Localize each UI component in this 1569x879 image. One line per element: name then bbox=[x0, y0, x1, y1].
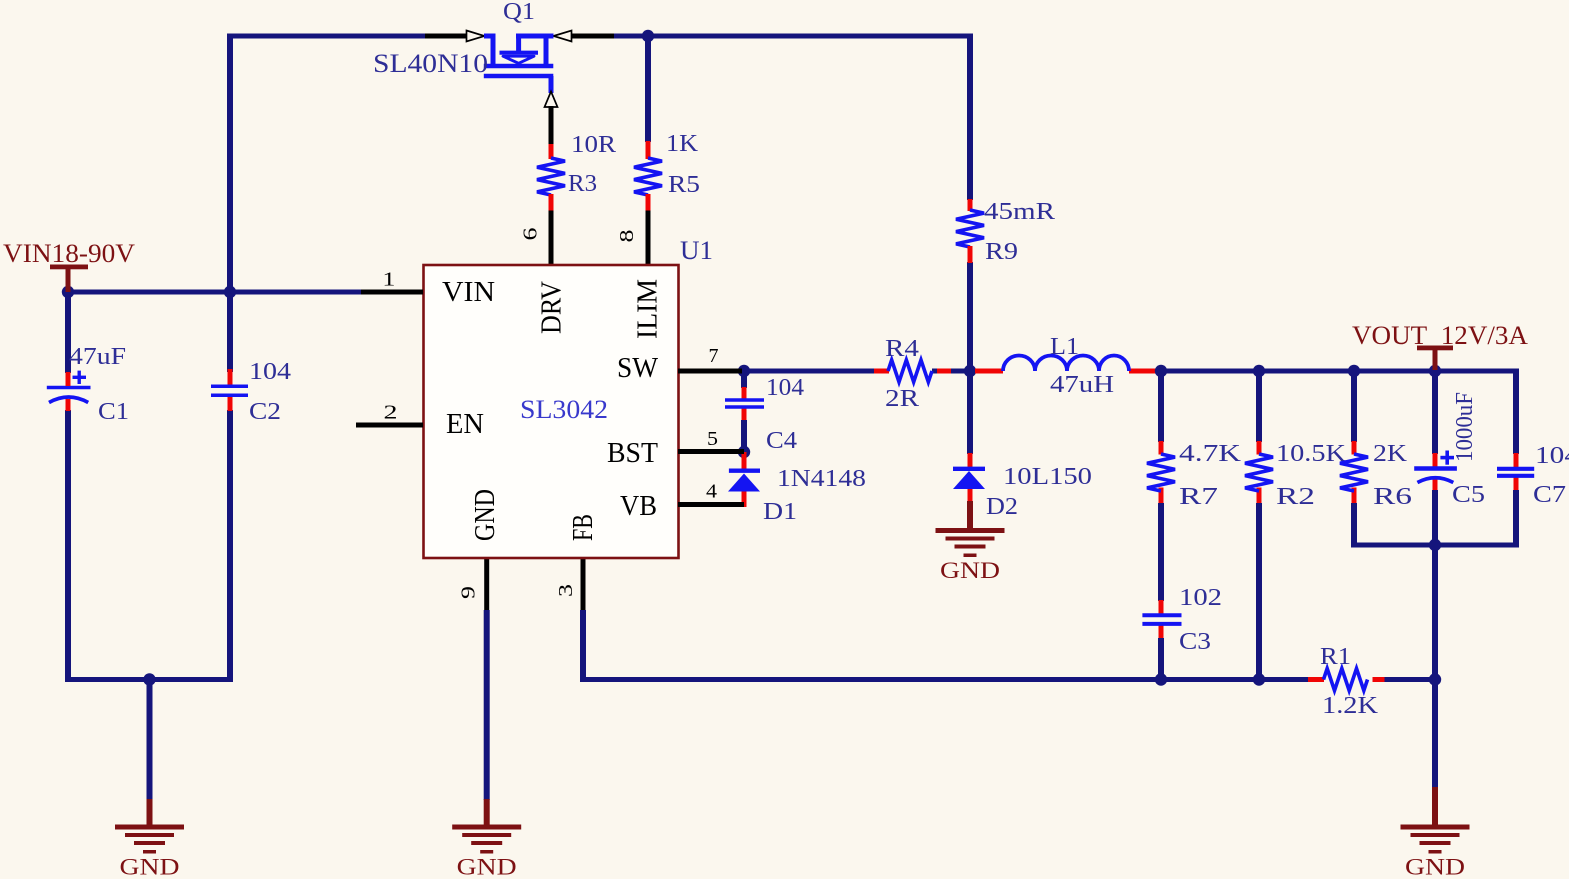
node junction R4 / R9 / L1 / D2 bbox=[964, 365, 976, 377]
svg-text:C7: C7 bbox=[1533, 482, 1566, 508]
label 10.5K bbox=[1276, 441, 1347, 467]
ground input bbox=[115, 825, 184, 879]
wire R5 upper segment bbox=[645, 34, 651, 143]
svg-text:U1: U1 bbox=[680, 236, 713, 265]
net label VIN18-90V bbox=[3, 239, 135, 268]
label 104 C2 bbox=[249, 359, 291, 385]
pin number 6 bbox=[520, 228, 542, 241]
resistor R9 bbox=[956, 199, 984, 263]
wire R4 right red bbox=[932, 369, 965, 374]
wire pin6 lead bbox=[549, 211, 554, 266]
resistor R6 bbox=[1340, 454, 1368, 491]
pin 7 SW stub bbox=[678, 369, 742, 374]
transistor Q1 source arrow bbox=[467, 31, 485, 42]
label 45mR bbox=[984, 199, 1055, 225]
svg-text:R1: R1 bbox=[1320, 644, 1351, 670]
pin 2 EN stub bbox=[356, 423, 423, 428]
wire GND pin lead bbox=[484, 558, 489, 826]
transistor Q1 gate arrow bbox=[545, 92, 558, 108]
wire R4 left red bbox=[874, 369, 889, 374]
svg-text:D2: D2 bbox=[986, 494, 1018, 520]
node junction R6 top bbox=[1348, 365, 1360, 377]
label U1 bbox=[680, 236, 713, 265]
pin 4 VB stub bbox=[678, 502, 744, 507]
svg-text:C1: C1 bbox=[98, 399, 129, 425]
wire C4 lower lead bbox=[742, 409, 747, 453]
capacitor C3 bbox=[1142, 615, 1181, 624]
pin number 5 bbox=[707, 428, 718, 450]
svg-text:2R: 2R bbox=[885, 386, 919, 412]
transistor Q1 MOSFET body bbox=[484, 34, 554, 94]
label 104 C4 bbox=[766, 375, 804, 401]
node junction VOUT / C5 bbox=[1429, 365, 1441, 377]
wire pin8 lead bbox=[646, 211, 651, 266]
pin 1 VIN stub bbox=[361, 290, 423, 295]
wire R1 left red bbox=[1308, 677, 1324, 682]
transistor Q1 gate pin wire bbox=[549, 106, 554, 145]
resistor R7 bbox=[1147, 454, 1175, 491]
wire D2 anode lead bbox=[968, 489, 973, 529]
label 1N4148 bbox=[777, 466, 866, 492]
resistor R2 bbox=[1245, 454, 1273, 491]
svg-text:R7: R7 bbox=[1179, 484, 1218, 510]
node junction R2 top bbox=[1253, 365, 1265, 377]
wire FB pin lead bbox=[581, 558, 586, 682]
svg-text:1000uF: 1000uF bbox=[1452, 392, 1478, 462]
wire C5 C7 bottom rail bbox=[1351, 543, 1519, 548]
wire D2 cathode lead bbox=[968, 453, 973, 468]
svg-text:GND: GND bbox=[120, 855, 180, 879]
svg-text:EN: EN bbox=[446, 408, 484, 440]
label C3 bbox=[1179, 629, 1211, 655]
label R2 bbox=[1276, 484, 1315, 510]
ground D2 bbox=[936, 528, 1005, 583]
svg-text:1N4148: 1N4148 bbox=[777, 466, 866, 492]
wire C3 lower lead bbox=[1159, 626, 1164, 683]
svg-text:D1: D1 bbox=[763, 499, 797, 525]
label R7 bbox=[1179, 484, 1218, 510]
ground U1 pin9 bbox=[452, 825, 521, 879]
svg-text:104: 104 bbox=[766, 375, 804, 401]
label R3 bbox=[568, 171, 597, 197]
svg-text:BST: BST bbox=[607, 437, 658, 469]
transistor Q1 drain pin wire bbox=[570, 34, 614, 39]
wire R1 to gnd node bbox=[1385, 677, 1436, 682]
label 10R bbox=[571, 132, 616, 158]
svg-text:R4: R4 bbox=[885, 336, 919, 362]
svg-text:47uF: 47uF bbox=[69, 344, 126, 370]
op-amp U1 body bbox=[424, 265, 679, 558]
wire D1 cathode lead bbox=[742, 452, 747, 469]
label C1 bbox=[98, 399, 129, 425]
wire L1 left red bbox=[975, 369, 1003, 374]
net label VOUT_12V/3A bbox=[1352, 321, 1528, 350]
pin number 3 bbox=[555, 584, 577, 597]
wire R7 lower lead bbox=[1159, 488, 1164, 602]
wire C5 upper lead bbox=[1432, 369, 1438, 468]
wire top rail left segment bbox=[227, 34, 425, 39]
label L1 bbox=[1050, 334, 1079, 360]
label R9 bbox=[985, 239, 1018, 265]
inductor L1 bbox=[1003, 356, 1129, 372]
svg-text:C3: C3 bbox=[1179, 629, 1211, 655]
svg-text:C4: C4 bbox=[766, 428, 797, 454]
label 2R bbox=[885, 386, 919, 412]
svg-text:SL40N10: SL40N10 bbox=[373, 49, 488, 78]
pin name EN bbox=[446, 408, 484, 440]
label R4 bbox=[885, 336, 919, 362]
label R5 bbox=[668, 172, 700, 198]
label SL40N10 bbox=[373, 49, 488, 78]
svg-text:VIN18-90V: VIN18-90V bbox=[3, 239, 135, 268]
svg-text:1.2K: 1.2K bbox=[1322, 693, 1379, 719]
label 10L150 bbox=[1003, 464, 1092, 490]
power VIN bar bbox=[50, 265, 88, 293]
svg-text:R2: R2 bbox=[1276, 484, 1315, 510]
node junction VIN / C2 bbox=[224, 286, 236, 298]
wire R9 upper vertical bbox=[967, 34, 973, 201]
svg-text:10.5K: 10.5K bbox=[1276, 441, 1347, 467]
node junction L1 / R7 bbox=[1155, 365, 1167, 377]
wire C4 upper lead bbox=[741, 371, 747, 399]
resistor R4 bbox=[888, 360, 932, 382]
svg-text:47uH: 47uH bbox=[1050, 372, 1114, 398]
svg-text:2K: 2K bbox=[1373, 441, 1408, 467]
svg-text:SL3042: SL3042 bbox=[520, 395, 608, 424]
wire R7 upper lead bbox=[1158, 369, 1164, 455]
svg-text:9: 9 bbox=[458, 586, 480, 599]
capacitor C5 bbox=[1414, 451, 1457, 483]
power VOUT bar bbox=[1417, 346, 1453, 371]
pin name SW bbox=[617, 352, 659, 384]
capacitor C7 bbox=[1497, 469, 1534, 476]
svg-text:C2: C2 bbox=[249, 399, 281, 425]
label C2 bbox=[249, 399, 281, 425]
wire R2 upper lead bbox=[1256, 369, 1262, 455]
diode D1 bbox=[728, 471, 760, 492]
svg-text:SW: SW bbox=[617, 352, 659, 384]
svg-text:Q1: Q1 bbox=[503, 0, 535, 25]
wire C2 plate reds bbox=[228, 369, 233, 411]
pin number 4 bbox=[706, 481, 717, 503]
pin name BST bbox=[607, 437, 658, 469]
label 1.2K bbox=[1322, 693, 1379, 719]
wire C7 lower lead bbox=[1514, 478, 1519, 548]
wire output top rail bbox=[1158, 369, 1519, 374]
label 4.7K bbox=[1179, 441, 1242, 467]
svg-text:2: 2 bbox=[384, 402, 398, 424]
svg-text:GND: GND bbox=[469, 489, 501, 541]
wire FB rail horizontal bbox=[583, 677, 1310, 682]
node junction VIN power bbox=[62, 286, 74, 298]
node junction R1 / output gnd bbox=[1429, 673, 1441, 685]
svg-text:C5: C5 bbox=[1452, 482, 1485, 508]
svg-text:4: 4 bbox=[706, 481, 717, 503]
pin number 1 bbox=[382, 269, 395, 291]
label R6 bbox=[1373, 484, 1412, 510]
pin 5 BST stub bbox=[678, 449, 744, 454]
svg-text:104: 104 bbox=[1535, 443, 1569, 469]
wire right gnd stem bbox=[1432, 787, 1438, 826]
label C4 bbox=[766, 428, 797, 454]
svg-text:R3: R3 bbox=[568, 171, 597, 197]
pin name DRV bbox=[536, 281, 568, 334]
node junction R2 / FB rail bbox=[1253, 673, 1265, 685]
pin number 9 bbox=[458, 586, 480, 599]
label 1000uF bbox=[1452, 392, 1478, 462]
wire D1 anode lead bbox=[742, 491, 747, 507]
wire input bottom rail bbox=[65, 677, 233, 682]
resistor R5 bbox=[634, 141, 662, 212]
label 47uF bbox=[69, 344, 126, 370]
svg-text:DRV: DRV bbox=[536, 281, 568, 334]
wire C3 upper red bbox=[1159, 600, 1164, 614]
wire R1 right red bbox=[1373, 677, 1386, 682]
svg-text:45mR: 45mR bbox=[984, 199, 1055, 225]
wire VIN rail to pin 1 bbox=[68, 290, 384, 295]
label SL3042 bbox=[520, 395, 608, 424]
wire R9 lower vertical bbox=[967, 262, 973, 454]
svg-text:104: 104 bbox=[249, 359, 291, 385]
pin name VIN bbox=[442, 276, 495, 308]
label 1K bbox=[666, 131, 699, 157]
pin name ILIM bbox=[632, 279, 664, 339]
pin number 8 bbox=[616, 230, 638, 243]
wire R6 upper lead bbox=[1351, 369, 1357, 455]
wire top rail right segment bbox=[614, 34, 973, 39]
svg-text:GND: GND bbox=[1405, 855, 1465, 879]
svg-text:1: 1 bbox=[382, 269, 395, 291]
svg-text:VB: VB bbox=[620, 490, 657, 522]
node junction C3 / FB rail bbox=[1155, 673, 1167, 685]
label R1 bbox=[1320, 644, 1351, 670]
svg-text:1K: 1K bbox=[666, 131, 699, 157]
wire C5 lower lead bbox=[1433, 479, 1438, 789]
capacitor C4 bbox=[725, 400, 764, 407]
wire L1 right red bbox=[1129, 369, 1156, 374]
svg-text:GND: GND bbox=[457, 855, 517, 879]
svg-text:VOUT_12V/3A: VOUT_12V/3A bbox=[1352, 321, 1528, 350]
ground output bbox=[1401, 825, 1470, 879]
svg-text:102: 102 bbox=[1179, 585, 1222, 611]
transistor Q1 drain arrow bbox=[554, 31, 572, 42]
resistor R3 bbox=[537, 144, 565, 212]
wire C2 lower lead bbox=[227, 410, 233, 682]
label C5 bbox=[1452, 482, 1485, 508]
label C7 bbox=[1533, 482, 1566, 508]
svg-text:4.7K: 4.7K bbox=[1179, 441, 1242, 467]
wire C7 upper lead bbox=[1513, 369, 1519, 468]
label D1 bbox=[763, 499, 797, 525]
label 2K bbox=[1373, 441, 1408, 467]
wire left gnd stem bbox=[147, 680, 153, 827]
pin name FB bbox=[567, 514, 599, 541]
svg-text:5: 5 bbox=[707, 428, 718, 450]
svg-text:7: 7 bbox=[709, 345, 719, 367]
svg-text:R6: R6 bbox=[1373, 484, 1412, 510]
svg-text:GND: GND bbox=[940, 558, 1000, 583]
node junction input gnd bbox=[143, 673, 155, 685]
svg-text:R9: R9 bbox=[985, 239, 1018, 265]
svg-text:ILIM: ILIM bbox=[632, 279, 664, 339]
svg-text:FB: FB bbox=[567, 514, 599, 541]
label 47uH bbox=[1050, 372, 1114, 398]
pin number 7 bbox=[709, 345, 719, 367]
wire left vertical VIN bus bbox=[227, 34, 233, 373]
node junction top rail / R5 bbox=[642, 30, 654, 42]
diode D2 bbox=[953, 469, 985, 489]
svg-text:R5: R5 bbox=[668, 172, 700, 198]
node junction C5 bottom rail bbox=[1429, 539, 1441, 551]
wire C1 plate reds bbox=[66, 372, 71, 411]
node junction SW / C4 bbox=[738, 365, 750, 377]
wire C1 lower lead bbox=[65, 410, 71, 682]
svg-text:8: 8 bbox=[616, 230, 638, 243]
svg-text:6: 6 bbox=[520, 228, 542, 241]
resistor R1 bbox=[1324, 669, 1368, 691]
node junction BST / D1 bbox=[738, 446, 750, 458]
label 102 bbox=[1179, 585, 1222, 611]
pin name GND bbox=[469, 489, 501, 541]
label 104 C7 bbox=[1535, 443, 1569, 469]
svg-text:3: 3 bbox=[555, 584, 577, 597]
wire R2 lower lead bbox=[1257, 488, 1262, 683]
capacitor C1 bbox=[47, 371, 91, 403]
label Q1 bbox=[503, 0, 535, 25]
svg-text:10R: 10R bbox=[571, 132, 616, 158]
wire C1 upper lead bbox=[65, 289, 71, 373]
transistor Q1 source pin wire bbox=[425, 34, 468, 39]
svg-text:10L150: 10L150 bbox=[1003, 464, 1092, 490]
label D2 bbox=[986, 494, 1018, 520]
wire SW node to R4 bbox=[744, 369, 875, 374]
svg-text:VIN: VIN bbox=[442, 276, 495, 308]
pin name VB bbox=[620, 490, 657, 522]
capacitor C2 bbox=[211, 386, 248, 395]
pin number 2 bbox=[384, 402, 398, 424]
wire R6 lower lead bbox=[1352, 488, 1357, 548]
svg-text:L1: L1 bbox=[1050, 334, 1079, 360]
